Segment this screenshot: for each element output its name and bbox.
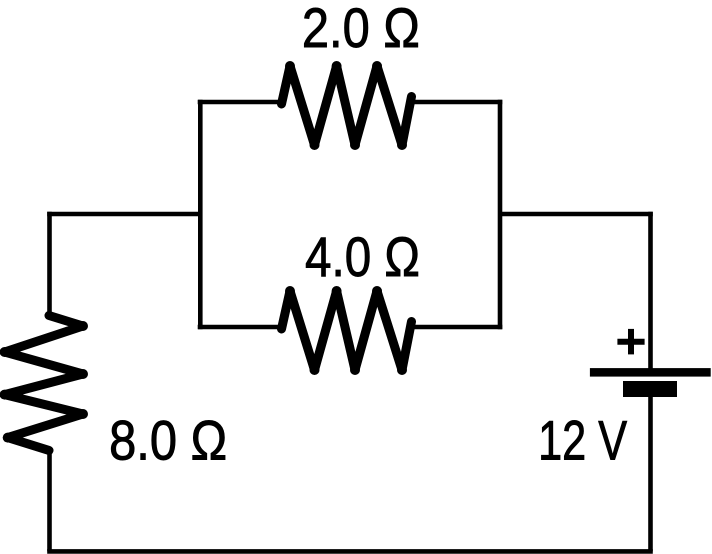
resistor R2 4.0 ohm zigzag [282, 291, 412, 370]
resistor R1 vertex dots [278, 61, 416, 150]
svg-text:4.0 Ω: 4.0 Ω [305, 225, 420, 288]
wire: parallel box right vertical [498, 100, 503, 330]
wire: right outer vertical lower [648, 396, 653, 551]
wire: parallel box bottom-right lead [414, 325, 502, 330]
wire: middle right horizontal [500, 212, 653, 217]
wire: parallel box bottom-left lead [198, 325, 282, 330]
svg-text:12 V: 12 V [538, 409, 627, 472]
wire: middle left horizontal [47, 212, 200, 217]
resistor R3 8.0 ohm zigzag (vertical) [5, 316, 83, 451]
wire: parallel box left vertical [198, 100, 203, 330]
wire: left outer vertical upper [47, 212, 52, 315]
wire: left outer vertical lower [47, 450, 52, 551]
battery B1 plus sign [617, 329, 644, 355]
wire: right outer vertical upper [648, 212, 653, 369]
resistor R1 2.0 ohm zigzag [282, 66, 412, 145]
battery B1 positive plate (long) [590, 368, 711, 377]
svg-text:8.0 Ω: 8.0 Ω [109, 409, 227, 472]
svg-text:2.0 Ω: 2.0 Ω [302, 0, 420, 59]
resistor R3 vertex dots [0, 312, 88, 455]
wire: bottom horizontal [47, 549, 653, 554]
wire: parallel box top-left lead [198, 100, 282, 105]
resistor R2 vertex dots [278, 286, 416, 375]
wire: parallel box top-right lead [414, 100, 502, 105]
battery B1 negative plate (short thick) [623, 381, 677, 397]
